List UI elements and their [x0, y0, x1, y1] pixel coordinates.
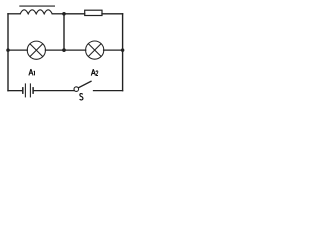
- wire switch to bottom-right corner: [94, 90, 123, 92]
- wire bottom-left to battery: [8, 90, 22, 92]
- battery cell plate long 2: [29, 83, 31, 97]
- label A1: [29, 69, 35, 75]
- switch S lever: [79, 81, 92, 87]
- battery cell plate short 1: [22, 87, 24, 94]
- wire lamp A2 to right: [104, 49, 123, 51]
- wire resistor to top-right corner: [102, 13, 123, 15]
- wire lamp A1 to center node: [45, 49, 64, 51]
- inductor core bar: [20, 5, 55, 7]
- label S: [80, 94, 83, 100]
- inductor L coil: [20, 10, 52, 14]
- lamp A2: [86, 41, 104, 59]
- node dot top center: [62, 12, 66, 16]
- wire inductor to top node: [52, 13, 64, 15]
- battery cell plate long 1: [24, 83, 26, 97]
- lamp A1: [27, 41, 45, 59]
- wire center node to lamp A2: [64, 49, 86, 51]
- wire battery to switch: [34, 90, 74, 92]
- node dot middle center: [62, 48, 66, 52]
- switch S contact circle: [74, 87, 79, 92]
- wire right vertical: [122, 14, 124, 91]
- wire left vertical: [7, 14, 9, 91]
- battery cell plate short 2: [32, 87, 34, 94]
- wire top node to resistor: [64, 13, 85, 15]
- wire center vertical: [63, 14, 65, 50]
- resistor R: [85, 10, 102, 15]
- node dot middle right: [121, 48, 125, 52]
- node dot middle left: [6, 48, 10, 52]
- wire top-left corner to inductor: [8, 13, 20, 15]
- wire middle-left to lamp A1: [8, 49, 27, 51]
- label A2: [91, 69, 98, 75]
